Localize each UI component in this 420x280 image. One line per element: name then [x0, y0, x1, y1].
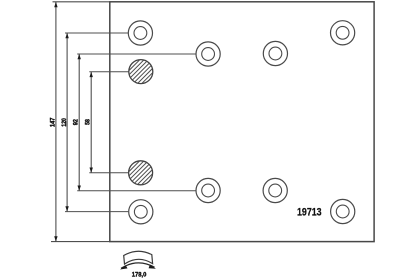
arc-length symbol band — [124, 251, 153, 264]
dimension line 120 — [65, 33, 68, 212]
rivet hole C3 — [263, 41, 287, 65]
dimension line 147 — [54, 2, 57, 242]
hatched hole H1 — [109, 57, 173, 87]
arc-length arrow — [120, 263, 156, 270]
rivet hole C5 — [129, 200, 153, 224]
svg-text:120: 120 — [61, 118, 68, 127]
dimension line 92 — [78, 54, 81, 191]
rivet hole C2 — [196, 42, 220, 66]
svg-text:178,0: 178,0 — [132, 272, 147, 279]
rivet hole C7 — [263, 178, 287, 202]
svg-text:92: 92 — [72, 119, 79, 126]
dimension line 58 — [90, 72, 93, 173]
leader hatched hole y=172.8 — [89, 172, 129, 174]
svg-text:58: 58 — [84, 119, 91, 125]
leader hole row y=53.6 — [77, 53, 196, 55]
svg-text:19713: 19713 — [297, 206, 322, 218]
leader hole row y=190.8 — [77, 190, 196, 192]
leader hole row y=211.6 — [65, 211, 128, 213]
plate outline — [110, 2, 374, 242]
leader hatched hole y=71.8 — [89, 71, 129, 73]
svg-text:147: 147 — [50, 117, 57, 127]
rivet hole C4 — [331, 21, 355, 45]
leader hole row y=33 — [65, 32, 128, 34]
top extension line — [53, 1, 110, 3]
rivet hole C1 — [128, 21, 152, 45]
bottom extension line — [51, 241, 110, 243]
hatched hole H2 — [108, 158, 172, 188]
rivet hole C8 — [331, 199, 355, 223]
rivet hole C6 — [196, 178, 220, 202]
